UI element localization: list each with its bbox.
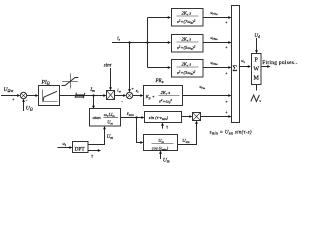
- wire S1 to PI block: [27, 94, 39, 97]
- svg-text:+: +: [131, 86, 134, 91]
- node τ input to sin block: [161, 123, 168, 131]
- svg-text:Σ: Σ: [232, 63, 237, 73]
- svg-text:-: -: [121, 98, 123, 104]
- sin block: [145, 112, 182, 123]
- wire u_r7ω output to summing block: [203, 10, 232, 25]
- svg-text:Usm: Usm: [182, 138, 190, 144]
- svg-text:UΩw: UΩw: [4, 87, 14, 93]
- node U_Ωw reference input: [1, 87, 20, 97]
- svg-text:ur5ω: ur5ω: [211, 35, 219, 41]
- wire s_min from M2 to summing block: [201, 110, 232, 118]
- svg-text:2Kr s: 2Kr s: [161, 90, 171, 96]
- wire ε_min down to cos block: [137, 118, 144, 144]
- svg-text:s2+(5ω0)2: s2+(5ω0)2: [177, 45, 196, 52]
- wire PI block to multiplier M1: [60, 94, 107, 97]
- formula s_min = U_sm sin(τ-ε): [210, 131, 252, 136]
- firing pulses output: [261, 60, 299, 68]
- svg-text:εmin: εmin: [127, 112, 134, 117]
- svg-text:smin = Usm sin(τ-ε): smin = Usm sin(τ-ε): [210, 131, 252, 136]
- PR controller fundamental block: [144, 79, 183, 106]
- svg-text:M: M: [254, 76, 260, 82]
- svg-text:2Kr s: 2Kr s: [182, 62, 192, 68]
- wire ε_min from atan to sin block: [121, 112, 145, 119]
- svg-text:Um: Um: [163, 157, 170, 163]
- harmonic compensator 5ω block: [172, 35, 204, 53]
- svg-text:PIΩ: PIΩ: [41, 80, 50, 86]
- svg-text:sin (τ-εmin): sin (τ-εmin): [149, 115, 169, 121]
- wire I_w down to atan block: [92, 96, 95, 110]
- wire sin block to multiplier M2: [182, 115, 193, 118]
- summing junction S2: [121, 86, 134, 104]
- carrier triangle wave input: [251, 85, 261, 102]
- svg-text:P: P: [255, 58, 259, 64]
- svg-text:Um: Um: [107, 135, 114, 140]
- svg-text:ur3ω: ur3ω: [211, 60, 219, 66]
- node U_Ω feedback input: [22, 99, 33, 112]
- svg-text:UΩ: UΩ: [26, 106, 33, 112]
- svg-text:Ud: Ud: [254, 34, 260, 39]
- svg-text:-: -: [26, 98, 28, 104]
- svg-text:2Kr s: 2Kr s: [182, 37, 192, 43]
- svg-text:DPT: DPT: [75, 147, 86, 153]
- svg-text:PRa: PRa: [155, 79, 164, 84]
- svg-text:+: +: [225, 20, 228, 25]
- svg-text:Im: Im: [89, 87, 95, 93]
- svg-text:atan: atan: [93, 115, 102, 120]
- svg-text:Um: Um: [158, 138, 164, 144]
- DPT block: [73, 142, 89, 153]
- svg-text:+: +: [12, 97, 15, 102]
- svg-text:ur7ω: ur7ω: [211, 10, 219, 16]
- summing junction S1: [12, 92, 28, 104]
- wire S2 to PR controller, node ε_i: [133, 88, 144, 97]
- wire u_rω PR output to summing block: [183, 84, 232, 104]
- summing block Σ: [232, 6, 240, 123]
- harmonic compensator 3ω block: [172, 60, 204, 78]
- wire i_s down to S2: [128, 43, 131, 93]
- node U_d dc-link voltage input: [254, 34, 260, 54]
- wire U_sm from cos block up to multiplier M2: [178, 121, 198, 145]
- svg-text:us: us: [241, 58, 245, 64]
- multiplier M2: [193, 113, 201, 121]
- node τ phase output of DPT: [88, 149, 101, 159]
- wire U_m from DPT up to atan block: [88, 126, 113, 145]
- harmonic compensator 7ω block: [172, 9, 204, 27]
- wire u_r3ω output to summing block: [203, 60, 232, 76]
- atan phase angle block: [90, 109, 121, 127]
- node U_m input to cos block: [159, 151, 170, 164]
- svg-text:+: +: [225, 45, 228, 50]
- svg-text:urω: urω: [200, 84, 206, 90]
- svg-text:iw: iw: [117, 87, 121, 93]
- wire u_s from summing block to PWM: [240, 58, 252, 68]
- PWM modulator block: [252, 54, 262, 85]
- node I_w current reference: [89, 87, 95, 97]
- svg-text:εi: εi: [136, 88, 139, 94]
- svg-text:Firing pulses...: Firing pulses...: [262, 60, 298, 66]
- svg-text:Kp +: Kp +: [145, 94, 155, 100]
- node sinτ reference: [104, 64, 112, 91]
- svg-text:is: is: [117, 37, 120, 42]
- node u1 grid voltage input: [58, 141, 73, 149]
- saturation limiter symbol: [62, 74, 79, 89]
- svg-text:+: +: [225, 71, 228, 76]
- svg-text:u1: u1: [63, 141, 67, 147]
- wire M1 to summing junction S2, node i_w: [115, 87, 127, 97]
- wire u_r5ω output to summing block: [203, 35, 232, 50]
- svg-text:τ: τ: [91, 155, 93, 160]
- svg-text:s2+(7ω0)2: s2+(7ω0)2: [177, 19, 196, 26]
- multiplier M1: [107, 91, 115, 100]
- svg-text:s2+ω02: s2+ω02: [159, 98, 172, 105]
- node i_s measured current line: [112, 37, 171, 44]
- PI controller PIΩ: [39, 80, 60, 106]
- svg-text:+: +: [225, 110, 228, 115]
- svg-text:W: W: [253, 67, 259, 73]
- svg-text:2Kr s: 2Kr s: [182, 11, 192, 17]
- svg-text:Um: Um: [107, 120, 113, 126]
- svg-text:sinτ: sinτ: [104, 64, 112, 69]
- svg-text:s2+(3ω0)2: s2+(3ω0)2: [177, 70, 196, 77]
- current limit coupling symbol on wire: [75, 93, 85, 99]
- cos block: [144, 135, 178, 152]
- vertical feed wire to harmonic compensators: [148, 16, 172, 69]
- svg-text:τ: τ: [166, 126, 168, 131]
- svg-text:+: +: [225, 99, 228, 104]
